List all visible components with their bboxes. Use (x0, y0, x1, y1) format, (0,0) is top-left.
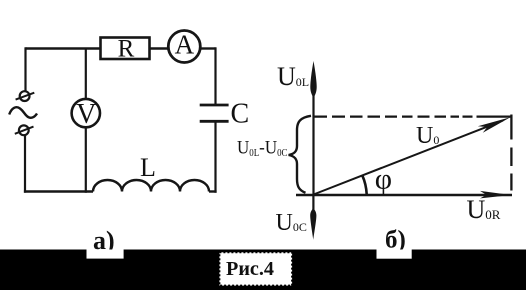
wire A to right corner (200, 47, 215, 49)
wire right vertical lower (214, 121, 216, 192)
vector U0 (314, 121, 504, 195)
svg-text:V: V (76, 99, 96, 130)
wire voltmeter branch lower (85, 127, 87, 193)
svg-text:Рис.4: Рис.4 (226, 258, 274, 280)
svg-text:R: R (118, 36, 135, 63)
svg-text:L: L (140, 153, 156, 182)
AC source terminal bottom (15, 125, 34, 135)
ammeter A (168, 31, 200, 63)
voltmeter V (72, 99, 100, 127)
svg-text:C: C (231, 98, 250, 129)
arrowhead down U0C (312, 195, 314, 212)
wire right vertical upper (214, 47, 216, 105)
brace U0L-U0C (289, 116, 311, 193)
wire R to A (150, 47, 169, 49)
phasor vertical axis line (312, 94, 314, 195)
wire bottom right segment (209, 190, 217, 192)
dashed horizontal line (314, 115, 511, 117)
svg-text:б): б) (385, 227, 406, 254)
wire top-left horizontal (26, 47, 101, 49)
arrowhead up U0L (310, 61, 316, 98)
AC source sine tilde (9, 107, 37, 118)
inductor L coil (93, 180, 209, 192)
svg-text:φ: φ (375, 162, 392, 195)
capacitor C plate bottom (200, 120, 229, 123)
capacitor C plate top (200, 104, 229, 107)
wire left vertical lower (24, 135, 26, 193)
angle arc phi (362, 175, 367, 194)
svg-text:A: A (175, 30, 195, 60)
resistor R1 box (101, 38, 150, 60)
wire bottom left segment (24, 190, 93, 192)
dashed vertical line (510, 115, 512, 191)
arrowhead right U0R (480, 191, 511, 199)
wire voltmeter branch upper (85, 49, 87, 100)
wire left vertical upper (24, 47, 26, 91)
figure caption box Ris.4 (219, 252, 292, 285)
phasor horizontal axis (296, 194, 512, 196)
notch under b) (377, 250, 412, 259)
AC source terminal top (16, 91, 35, 101)
notch under a) (87, 250, 124, 259)
black banner bar (0, 250, 526, 290)
